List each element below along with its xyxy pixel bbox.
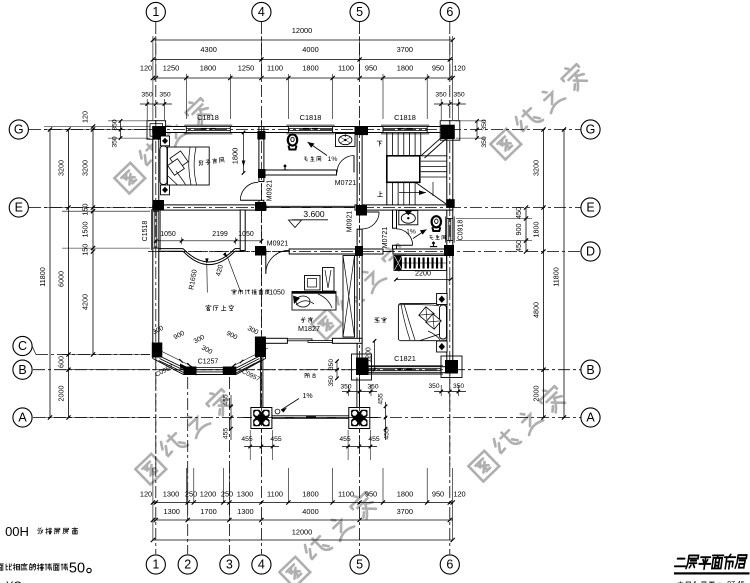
corner pilaster col1/G [147,121,166,140]
svg-text:455: 455 [223,394,230,406]
note 面比相应的楼地面低50 [0,563,68,570]
grid axis lines [155,22,157,465]
svg-text:350: 350 [340,384,351,391]
svg-text:1800: 1800 [302,490,318,499]
svg-text:455: 455 [270,436,282,443]
exterior wall col1 (left) [153,127,159,346]
svg-text:120: 120 [453,64,465,73]
window C1818 #3 [383,127,427,133]
children bed [160,146,167,185]
svg-text:350: 350 [481,119,488,131]
svg-text:1200: 1200 [200,490,216,499]
left dimension chains [49,130,51,418]
window C1818 #1 [186,127,230,133]
clipped subtitle 本层建筑面积 [678,582,722,583]
stair treads upper flight [386,133,388,156]
svg-text:M1827: M1827 [298,324,320,333]
svg-text:1%: 1% [406,229,416,236]
stair treads lower flight [386,182,388,204]
svg-text:450: 450 [514,240,523,252]
svg-text:G: G [586,123,596,137]
bay column bottom-left [180,364,197,376]
title 二层平面布局 [674,554,747,569]
svg-text:1%: 1% [302,393,312,400]
hall interior dims 1050/2199/1050 [156,240,262,242]
children room label [198,157,224,166]
window C1818 #2 [288,127,332,133]
bedroom bed [398,303,447,340]
ornate column left [251,408,272,429]
svg-text:350: 350 [453,383,464,390]
svg-text:1800: 1800 [532,222,541,238]
svg-text:6: 6 [446,5,453,19]
window C0918 [447,219,453,241]
svg-text:455: 455 [368,436,380,443]
svg-text:250: 250 [185,490,197,499]
svg-text:250: 250 [221,490,233,499]
svg-text:5: 5 [356,558,363,572]
svg-text:150: 150 [81,244,90,256]
svg-text:A: A [586,411,595,425]
door M0921 study [265,250,267,273]
interior wall row E [153,205,266,210]
svg-text:1100: 1100 [338,64,354,73]
watermark 图纸之家 x6 [113,61,590,583]
grid bubbles bottom: 1-6 [146,555,165,574]
svg-text:C1818: C1818 [300,113,322,122]
svg-text:C1257: C1257 [198,359,219,366]
study X-cabinet [343,256,355,338]
svg-text:350: 350 [435,92,447,99]
svg-text:12000: 12000 [292,26,313,35]
svg-text:950: 950 [365,490,377,499]
children interior dim 1800 [243,133,245,173]
svg-text:3700: 3700 [397,45,413,54]
svg-text:E: E [586,201,594,215]
室内护栏高度1050 [232,289,270,294]
svg-text:2: 2 [184,558,191,572]
svg-text:1050: 1050 [238,231,254,238]
svg-text:455: 455 [339,436,351,443]
svg-text:1250: 1250 [163,64,179,73]
svg-text:1100: 1100 [267,64,283,73]
svg-text:1800: 1800 [397,490,413,499]
column c6/E [446,199,455,208]
svg-text:150: 150 [81,204,90,216]
children nightstand top [161,136,170,146]
closet dim 2200 [396,279,451,281]
grid centerlines over plan [155,120,157,465]
svg-text:C1818: C1818 [197,113,219,122]
bay dim ticks 300/900/300 [153,347,196,369]
corner 350 dims top-left [146,99,148,120]
wall col5 G-B [357,127,362,213]
svg-text:2199: 2199 [212,231,228,238]
dim 1200 bedroom left [374,341,376,370]
svg-text:900: 900 [514,224,523,236]
right dimension chains [525,208,527,252]
column c6/B with surround [441,356,462,378]
bay column bottom-right [223,367,237,375]
study labels [301,317,313,322]
svg-text:G: G [14,123,24,137]
svg-text:C0918: C0918 [458,220,465,241]
bathroom2 washbasin counter [399,211,418,225]
svg-text:350: 350 [428,383,439,390]
study monitor [305,276,321,291]
column c4/E [255,202,266,211]
svg-text:950: 950 [365,64,377,73]
svg-text:450: 450 [514,207,523,219]
bathroom1 toilet (bold) [288,134,297,145]
svg-text:4000: 4000 [302,507,318,516]
svg-text:1300: 1300 [237,507,253,516]
svg-text:4200: 4200 [81,294,90,310]
grid bubbles left: G E C B A [9,120,28,139]
door M0721 bathroom1 [353,156,355,173]
svg-text:350: 350 [453,92,465,99]
grid bubbles top: 1 4 5 6 [146,2,165,21]
svg-text:1800: 1800 [302,64,318,73]
wall row B c5-c6 with window C1821 [357,367,453,373]
stair treads right flight [421,155,447,157]
svg-text:3700: 3700 [397,507,413,516]
svg-text:C: C [18,339,27,353]
svg-text:5: 5 [356,5,363,19]
svg-text:B: B [586,363,594,377]
study plant [323,268,335,292]
svg-text:4000: 4000 [302,45,318,54]
svg-text:B: B [18,363,26,377]
bathroom2 door [396,244,412,246]
svg-text:1050: 1050 [269,290,285,297]
svg-text:1100: 1100 [267,490,283,499]
svg-text:350: 350 [112,136,119,148]
svg-text:2000: 2000 [532,386,541,402]
column c5/B with surround [352,354,372,380]
bay window C1257 [194,367,227,369]
hall floor edge line at E [266,205,355,207]
top dimension chains [152,36,154,120]
wall col4 G-E with door opening [259,127,264,182]
svg-text:350: 350 [328,375,335,386]
balcony bottom rail [272,415,349,417]
svg-text:120: 120 [453,490,465,499]
bathroom2 left wall with door opening [393,210,397,228]
svg-text:1250: 1250 [238,64,254,73]
svg-text:4: 4 [258,558,265,572]
door M0921 children room [240,199,258,201]
svg-text:00H: 00H [5,524,29,539]
bathroom2 toilet (bold) [432,216,441,227]
svg-text:350: 350 [328,359,335,370]
svg-text:950: 950 [432,64,444,73]
svg-text:4: 4 [258,5,265,19]
svg-text:120: 120 [81,111,90,123]
455 dims balcony [244,446,279,448]
bedroom nightstands [437,294,448,305]
svg-text:455: 455 [223,428,230,440]
svg-text:C1821: C1821 [394,354,416,363]
balcony label 阳台 [305,373,316,378]
svg-text:12000: 12000 [292,528,313,537]
svg-text:M0921: M0921 [267,241,289,248]
bedroom label [375,317,387,322]
svg-text:M0721: M0721 [335,180,357,187]
svg-text:350: 350 [367,384,378,391]
svg-text:350: 350 [112,119,119,131]
svg-text:4300: 4300 [200,45,216,54]
350/350 dims near c6/B [440,385,442,396]
svg-text:E: E [15,201,23,215]
svg-text:1500: 1500 [81,222,90,238]
svg-text:1050: 1050 [160,231,176,238]
column c4/D [255,246,266,256]
svg-text:C1518: C1518 [142,221,149,242]
study desk [292,292,336,311]
corner 350 dims left [120,121,122,139]
svg-text:M0721: M0721 [382,227,389,249]
svg-text:350: 350 [481,136,488,148]
column c5/E [356,205,367,216]
exterior wall col6 (right) [447,127,453,373]
children nightstand bottom [161,185,170,195]
bay window C0957 right [233,357,258,370]
svg-text:2000: 2000 [57,386,66,402]
column c4/bath wall [258,169,266,178]
svg-text:1800: 1800 [397,64,413,73]
bottom dimension chains [152,468,154,540]
svg-text:C1818: C1818 [394,113,416,122]
stair direction labels [377,141,382,146]
exterior wall row G (top) [153,127,453,133]
column c5/D [355,246,363,256]
svg-text:1800: 1800 [200,64,216,73]
bathroom2 floor drain [433,242,435,247]
svg-text:D: D [586,245,595,259]
svg-text:1: 1 [152,5,159,19]
bedroom closet 2200 [394,256,447,271]
ornate column right [349,408,370,429]
living room label 客厅上空 [206,305,234,311]
svg-text:4800: 4800 [532,302,541,318]
svg-text:2200: 2200 [415,269,431,278]
bay column right (col4 tall) [255,337,266,358]
bathroom1 bottom wall [259,170,337,175]
svg-text:120: 120 [140,490,152,499]
svg-text:1100: 1100 [338,490,354,499]
svg-text:455: 455 [378,393,385,405]
column c5/G [355,126,369,135]
sliding door M1827 [287,339,312,341]
wall row D c4-c6 with openings [263,249,266,254]
bathroom1 washbasin counter [336,134,356,147]
svg-text:350: 350 [141,92,153,99]
svg-text:3.600: 3.600 [303,209,325,219]
study bottom wall with M1827 opening [259,338,288,343]
bathroom1 floor drain [284,165,286,171]
svg-text:3200: 3200 [532,160,541,176]
svg-text:11800: 11800 [552,267,561,286]
svg-text:11800: 11800 [38,267,47,286]
window C1518 [153,211,159,248]
column c6/D [444,245,454,256]
svg-text:50: 50 [69,561,85,577]
svg-text:120: 120 [140,64,152,73]
svg-text:1300: 1300 [237,490,253,499]
svg-text:6000: 6000 [57,271,66,287]
bay window outline [153,337,266,375]
corner pilaster col6/G [440,121,460,141]
bay column left (col1) [152,343,163,358]
stair void [387,156,420,183]
350/350 dims near c5/B [336,361,338,378]
svg-text:M0921: M0921 [267,180,274,202]
svg-text:1200: 1200 [365,347,372,363]
column c1/E [153,200,164,211]
svg-text:M0921: M0921 [347,211,354,233]
svg-text:350: 350 [159,92,171,99]
door M0721 bathroom2 [362,211,379,213]
svg-text:1%: 1% [328,156,338,163]
balcony left rail [259,344,261,408]
svg-text:A: A [18,411,27,425]
svg-text:6: 6 [446,558,453,572]
column c4/G [257,131,265,140]
corner 350 dims top-right [440,99,442,120]
svg-text:1: 1 [152,558,159,572]
svg-text:455: 455 [241,436,253,443]
svg-text:3200: 3200 [81,160,90,176]
living room wall stub + rail arc [240,210,245,251]
svg-text:1800: 1800 [231,148,240,164]
svg-text:600: 600 [57,356,66,368]
bathroom2 labels [430,235,446,239]
svg-text:1300: 1300 [163,507,179,516]
grid bubbles right: G E D B A [581,120,600,139]
svg-text:1700: 1700 [200,507,216,516]
svg-text:950: 950 [432,490,444,499]
svg-text:3200: 3200 [57,160,66,176]
bay window C0957 left [161,357,187,370]
stair cut diagonals [421,133,447,156]
bed pillow decor [419,307,434,322]
bathroom1 labels [304,157,321,162]
svg-text:1300: 1300 [163,490,179,499]
svg-text:3: 3 [226,558,233,572]
stair flight edge [386,133,388,205]
balcony right rail [356,378,358,409]
